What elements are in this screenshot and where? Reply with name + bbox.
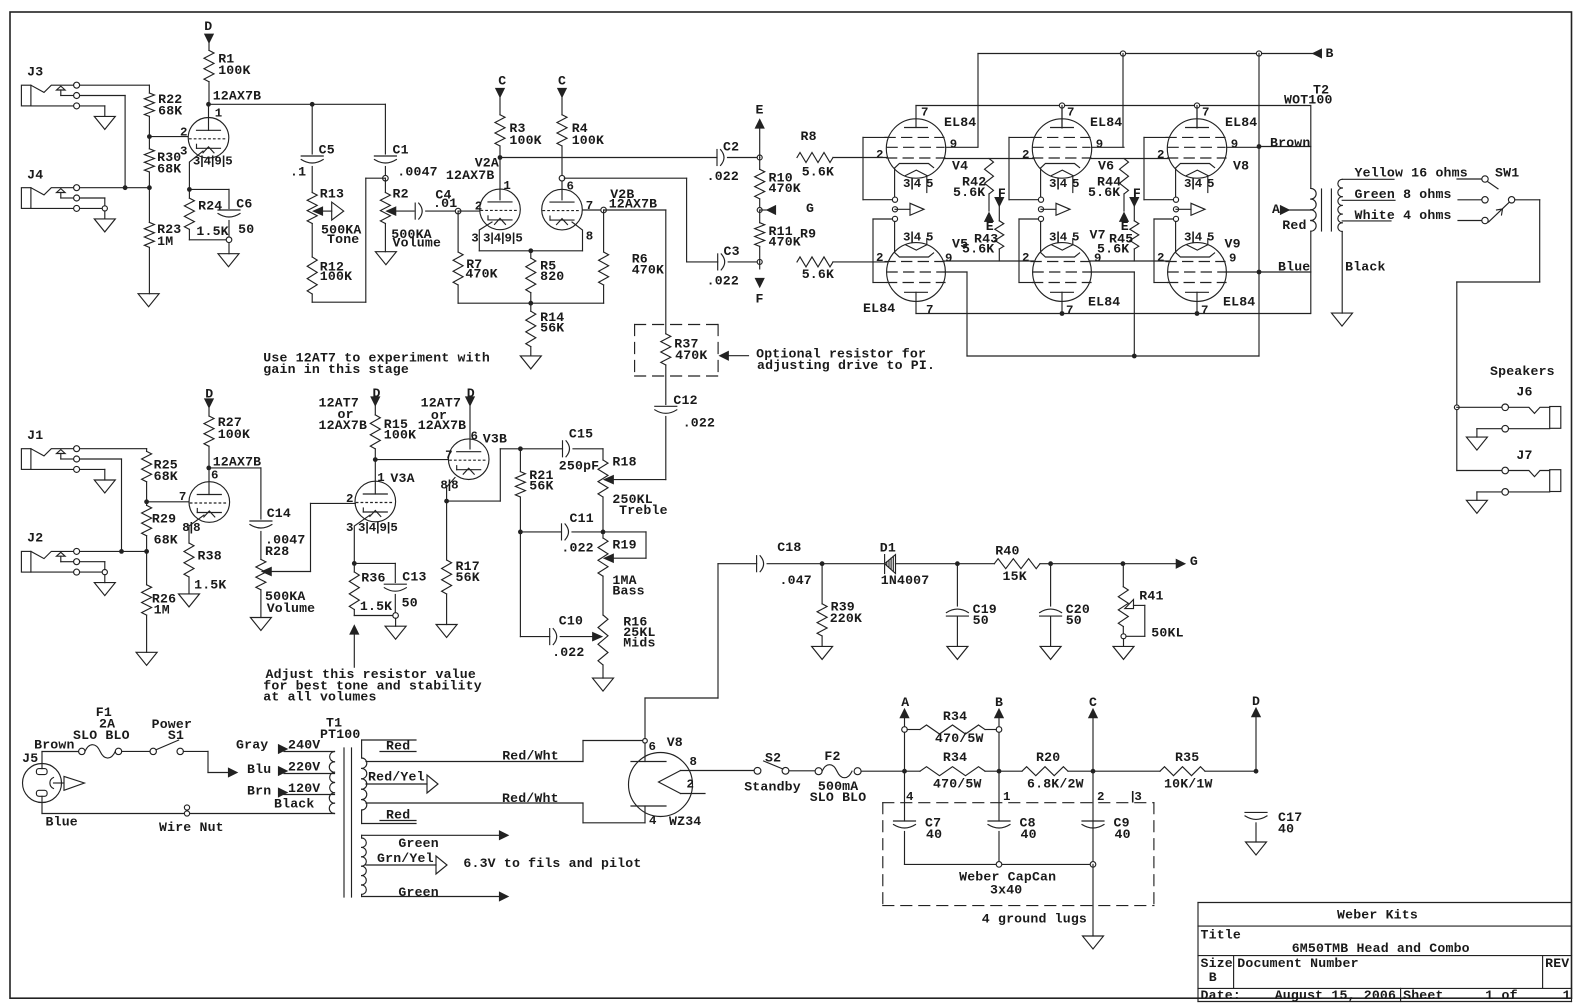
- svg-text:Mids: Mids: [623, 636, 655, 651]
- svg-text:White 4 ohms: White 4 ohms: [1355, 208, 1452, 223]
- svg-text:240V: 240V: [288, 738, 320, 753]
- svg-text:68K: 68K: [158, 104, 182, 119]
- svg-text:Black: Black: [274, 797, 314, 812]
- svg-text:Blu: Blu: [247, 762, 271, 777]
- svg-text:5.6K: 5.6K: [802, 164, 834, 179]
- svg-text:R8: R8: [801, 129, 817, 144]
- svg-text:gain in this stage: gain in this stage: [263, 362, 409, 377]
- svg-text:6.8K/2W: 6.8K/2W: [1027, 777, 1084, 792]
- svg-text:470K: 470K: [465, 267, 497, 282]
- svg-text:C1: C1: [393, 142, 409, 157]
- svg-text:470/5W: 470/5W: [933, 777, 982, 792]
- svg-text:12AX7B: 12AX7B: [609, 197, 658, 212]
- svg-text:Date:: Date:: [1201, 988, 1241, 1003]
- svg-text:S2: S2: [765, 751, 781, 766]
- svg-text:Blue: Blue: [46, 815, 78, 830]
- svg-text:56K: 56K: [529, 479, 553, 494]
- svg-text:250pF: 250pF: [559, 459, 599, 474]
- svg-text:50KL: 50KL: [1151, 626, 1183, 641]
- svg-text:R40: R40: [995, 544, 1019, 559]
- svg-text:R38: R38: [198, 549, 222, 564]
- svg-text:Red/Wht: Red/Wht: [502, 791, 559, 806]
- svg-text:4 ground lugs: 4 ground lugs: [982, 912, 1087, 927]
- svg-text:470K: 470K: [769, 181, 801, 196]
- svg-text:F: F: [756, 291, 764, 306]
- svg-text:Speakers: Speakers: [1490, 364, 1555, 379]
- svg-text:B: B: [995, 695, 1003, 710]
- svg-text:Red/Yel: Red/Yel: [368, 770, 425, 785]
- svg-text:C2: C2: [723, 140, 739, 155]
- svg-text:Treble: Treble: [619, 503, 668, 518]
- svg-text:C: C: [558, 73, 566, 88]
- svg-text:D1: D1: [880, 540, 896, 555]
- svg-text:A: A: [1272, 202, 1280, 217]
- svg-text:D: D: [1252, 694, 1260, 709]
- svg-text:100K: 100K: [572, 133, 604, 148]
- svg-text:100K: 100K: [218, 427, 250, 442]
- svg-text:.0047: .0047: [397, 164, 437, 179]
- svg-text:Grn/Yel: Grn/Yel: [377, 851, 434, 866]
- svg-text:EL84: EL84: [1225, 115, 1257, 130]
- svg-text:5.6K: 5.6K: [1097, 242, 1129, 257]
- svg-text:C: C: [1089, 695, 1097, 710]
- svg-text:1 of: 1 of: [1485, 988, 1517, 1003]
- svg-text:Weber Kits: Weber Kits: [1337, 908, 1418, 923]
- svg-text:8|8: 8|8: [440, 479, 458, 493]
- svg-text:470/5W: 470/5W: [935, 731, 984, 746]
- svg-text:3|4: 3|4: [1049, 231, 1068, 245]
- svg-text:3|4|9|5: 3|4|9|5: [193, 154, 232, 168]
- svg-text:Yellow 16 ohms: Yellow 16 ohms: [1355, 166, 1468, 181]
- svg-text:C18: C18: [777, 540, 801, 555]
- svg-text:6.3V to fils and pilot: 6.3V to fils and pilot: [463, 856, 641, 871]
- svg-text:.022: .022: [707, 274, 739, 289]
- svg-text:5.6K: 5.6K: [953, 185, 985, 200]
- svg-text:G: G: [806, 201, 814, 216]
- svg-text:adjusting drive to PI.: adjusting drive to PI.: [757, 358, 935, 373]
- svg-text:August 15, 2006: August 15, 2006: [1275, 988, 1396, 1003]
- svg-text:100K: 100K: [218, 63, 250, 78]
- svg-text:120V: 120V: [288, 781, 320, 796]
- svg-text:at all volumes: at all volumes: [263, 690, 376, 705]
- svg-text:J7: J7: [1516, 448, 1532, 463]
- svg-text:12AX7B: 12AX7B: [418, 418, 467, 433]
- svg-text:470K: 470K: [769, 235, 801, 250]
- svg-text:12AX7B: 12AX7B: [446, 168, 495, 183]
- svg-text:Blue: Blue: [1278, 260, 1310, 275]
- svg-text:R24: R24: [198, 199, 222, 214]
- svg-text:Gray: Gray: [236, 738, 268, 753]
- svg-text:PT100: PT100: [320, 727, 360, 742]
- svg-text:3|4: 3|4: [1184, 231, 1203, 245]
- svg-text:12AX7B: 12AX7B: [213, 89, 262, 104]
- svg-text:.1: .1: [290, 165, 306, 180]
- svg-text:SLO BLO: SLO BLO: [810, 790, 867, 805]
- svg-text:R41: R41: [1139, 589, 1163, 604]
- svg-text:C15: C15: [569, 427, 593, 442]
- svg-text:Volume: Volume: [393, 236, 442, 251]
- svg-text:.022: .022: [561, 540, 593, 555]
- svg-text:Sheet: Sheet: [1403, 988, 1443, 1003]
- svg-text:8|8: 8|8: [182, 521, 200, 535]
- svg-text:820: 820: [540, 269, 564, 284]
- svg-text:Volume: Volume: [267, 601, 316, 616]
- svg-text:Green: Green: [398, 836, 438, 851]
- svg-text:1.5K: 1.5K: [196, 224, 228, 239]
- svg-text:J4: J4: [27, 168, 43, 183]
- svg-text:Bass: Bass: [612, 583, 644, 598]
- svg-text:V4: V4: [952, 159, 968, 174]
- svg-text:3x40: 3x40: [990, 883, 1022, 898]
- svg-text:R19: R19: [612, 538, 636, 553]
- svg-text:Black: Black: [1345, 260, 1385, 275]
- svg-text:Green: Green: [398, 885, 438, 900]
- svg-text:EL84: EL84: [1090, 115, 1122, 130]
- svg-text:1M: 1M: [157, 234, 173, 249]
- svg-text:C5: C5: [319, 142, 335, 157]
- svg-text:3|4: 3|4: [903, 231, 922, 245]
- svg-text:.01: .01: [433, 196, 457, 211]
- svg-text:V9: V9: [1225, 237, 1241, 252]
- svg-text:R34: R34: [943, 750, 967, 765]
- svg-text:EL84: EL84: [1223, 295, 1255, 310]
- svg-text:1N4007: 1N4007: [881, 573, 930, 588]
- svg-text:1: 1: [1563, 988, 1571, 1003]
- svg-text:68K: 68K: [154, 469, 178, 484]
- svg-text:R28: R28: [265, 544, 289, 559]
- svg-text:A: A: [901, 695, 909, 710]
- svg-text:Red/Wht: Red/Wht: [502, 749, 559, 764]
- svg-text:B: B: [1326, 46, 1334, 61]
- svg-text:50: 50: [1066, 613, 1082, 628]
- svg-text:C13: C13: [402, 570, 426, 585]
- svg-text:.022: .022: [552, 645, 584, 660]
- svg-text:6M50TMB Head and Combo: 6M50TMB Head and Combo: [1292, 941, 1470, 956]
- svg-text:R20: R20: [1036, 750, 1060, 765]
- svg-text:V3B: V3B: [483, 431, 507, 446]
- svg-text:REV: REV: [1545, 956, 1569, 971]
- svg-text:100K: 100K: [384, 428, 416, 443]
- svg-text:40: 40: [1115, 827, 1131, 842]
- svg-text:3|4: 3|4: [1049, 177, 1068, 191]
- svg-text:15K: 15K: [1003, 569, 1027, 584]
- svg-text:SW1: SW1: [1495, 166, 1519, 181]
- svg-text:220K: 220K: [830, 611, 862, 626]
- svg-text:40: 40: [1021, 827, 1037, 842]
- svg-text:C3: C3: [724, 244, 740, 259]
- svg-text:100K: 100K: [509, 133, 541, 148]
- svg-text:3|4|9|5: 3|4|9|5: [358, 521, 397, 535]
- svg-text:Red: Red: [1282, 218, 1306, 233]
- svg-text:C14: C14: [267, 506, 291, 521]
- svg-text:C: C: [498, 73, 506, 88]
- svg-text:Brn: Brn: [247, 784, 271, 799]
- svg-text:1M: 1M: [154, 603, 170, 618]
- svg-text:5.6K: 5.6K: [802, 267, 834, 282]
- svg-text:F2: F2: [824, 749, 840, 764]
- svg-text:C6: C6: [236, 196, 252, 211]
- svg-text:56K: 56K: [456, 570, 480, 585]
- svg-text:Green 8 ohms: Green 8 ohms: [1355, 187, 1452, 202]
- svg-text:220V: 220V: [288, 760, 320, 775]
- svg-text:R9: R9: [800, 227, 816, 242]
- svg-text:3|4|9|5: 3|4|9|5: [483, 232, 522, 246]
- svg-text:.022: .022: [683, 416, 715, 431]
- svg-text:50: 50: [238, 222, 254, 237]
- svg-text:10K/1W: 10K/1W: [1164, 777, 1213, 792]
- svg-text:1.5K: 1.5K: [360, 599, 392, 614]
- svg-text:J6: J6: [1516, 385, 1532, 400]
- svg-text:C10: C10: [559, 614, 583, 629]
- svg-text:40: 40: [1278, 822, 1294, 837]
- svg-text:1.5K: 1.5K: [194, 577, 226, 592]
- svg-text:Title: Title: [1201, 928, 1241, 943]
- svg-text:.022: .022: [707, 169, 739, 184]
- svg-text:12AX7B: 12AX7B: [319, 418, 368, 433]
- svg-text:R36: R36: [361, 570, 385, 585]
- svg-text:5.6K: 5.6K: [962, 242, 994, 257]
- svg-text:R29: R29: [152, 511, 176, 526]
- svg-text:.047: .047: [780, 573, 812, 588]
- svg-text:SLO BLO: SLO BLO: [73, 728, 130, 743]
- svg-text:C12: C12: [673, 393, 697, 408]
- svg-text:WZ34: WZ34: [669, 814, 701, 829]
- svg-text:V8: V8: [1233, 159, 1249, 174]
- svg-text:470K: 470K: [632, 263, 664, 278]
- svg-text:470K: 470K: [675, 348, 707, 363]
- svg-text:100K: 100K: [320, 269, 352, 284]
- svg-text:G: G: [1190, 554, 1198, 569]
- svg-text:40: 40: [926, 827, 942, 842]
- svg-text:R35: R35: [1175, 750, 1199, 765]
- svg-text:EL84: EL84: [1088, 295, 1120, 310]
- svg-text:EL84: EL84: [944, 115, 976, 130]
- svg-text:V3A: V3A: [390, 471, 414, 486]
- svg-text:D: D: [204, 19, 212, 34]
- svg-text:V6: V6: [1098, 159, 1114, 174]
- svg-text:50: 50: [402, 595, 418, 610]
- svg-text:WOT100: WOT100: [1284, 93, 1333, 108]
- svg-text:5.6K: 5.6K: [1088, 185, 1120, 200]
- svg-text:Brown: Brown: [34, 738, 74, 753]
- svg-text:Standby: Standby: [744, 780, 801, 795]
- svg-text:R18: R18: [612, 454, 636, 469]
- svg-text:J2: J2: [27, 531, 43, 546]
- svg-text:R34: R34: [943, 709, 967, 724]
- svg-text:Wire Nut: Wire Nut: [159, 820, 224, 835]
- svg-text:B: B: [1209, 970, 1217, 985]
- svg-text:C11: C11: [570, 511, 594, 526]
- svg-text:J5: J5: [22, 751, 38, 766]
- svg-text:68K: 68K: [154, 533, 178, 548]
- svg-text:V8: V8: [667, 735, 683, 750]
- svg-text:V7: V7: [1090, 228, 1106, 243]
- svg-text:56K: 56K: [540, 321, 564, 336]
- svg-text:J1: J1: [27, 428, 43, 443]
- svg-text:R13: R13: [320, 187, 344, 202]
- svg-text:E: E: [756, 103, 764, 118]
- svg-text:R2: R2: [393, 187, 409, 202]
- svg-text:J3: J3: [27, 64, 43, 79]
- svg-text:|3: |3: [1129, 790, 1141, 804]
- svg-text:50: 50: [973, 613, 989, 628]
- svg-text:Tone: Tone: [327, 232, 359, 247]
- svg-text:EL84: EL84: [863, 301, 895, 316]
- svg-text:Brown: Brown: [1270, 136, 1310, 151]
- svg-text:3|4: 3|4: [903, 177, 922, 191]
- svg-text:3|4: 3|4: [1184, 177, 1203, 191]
- svg-text:Document Number: Document Number: [1237, 956, 1358, 971]
- svg-text:68K: 68K: [157, 162, 181, 177]
